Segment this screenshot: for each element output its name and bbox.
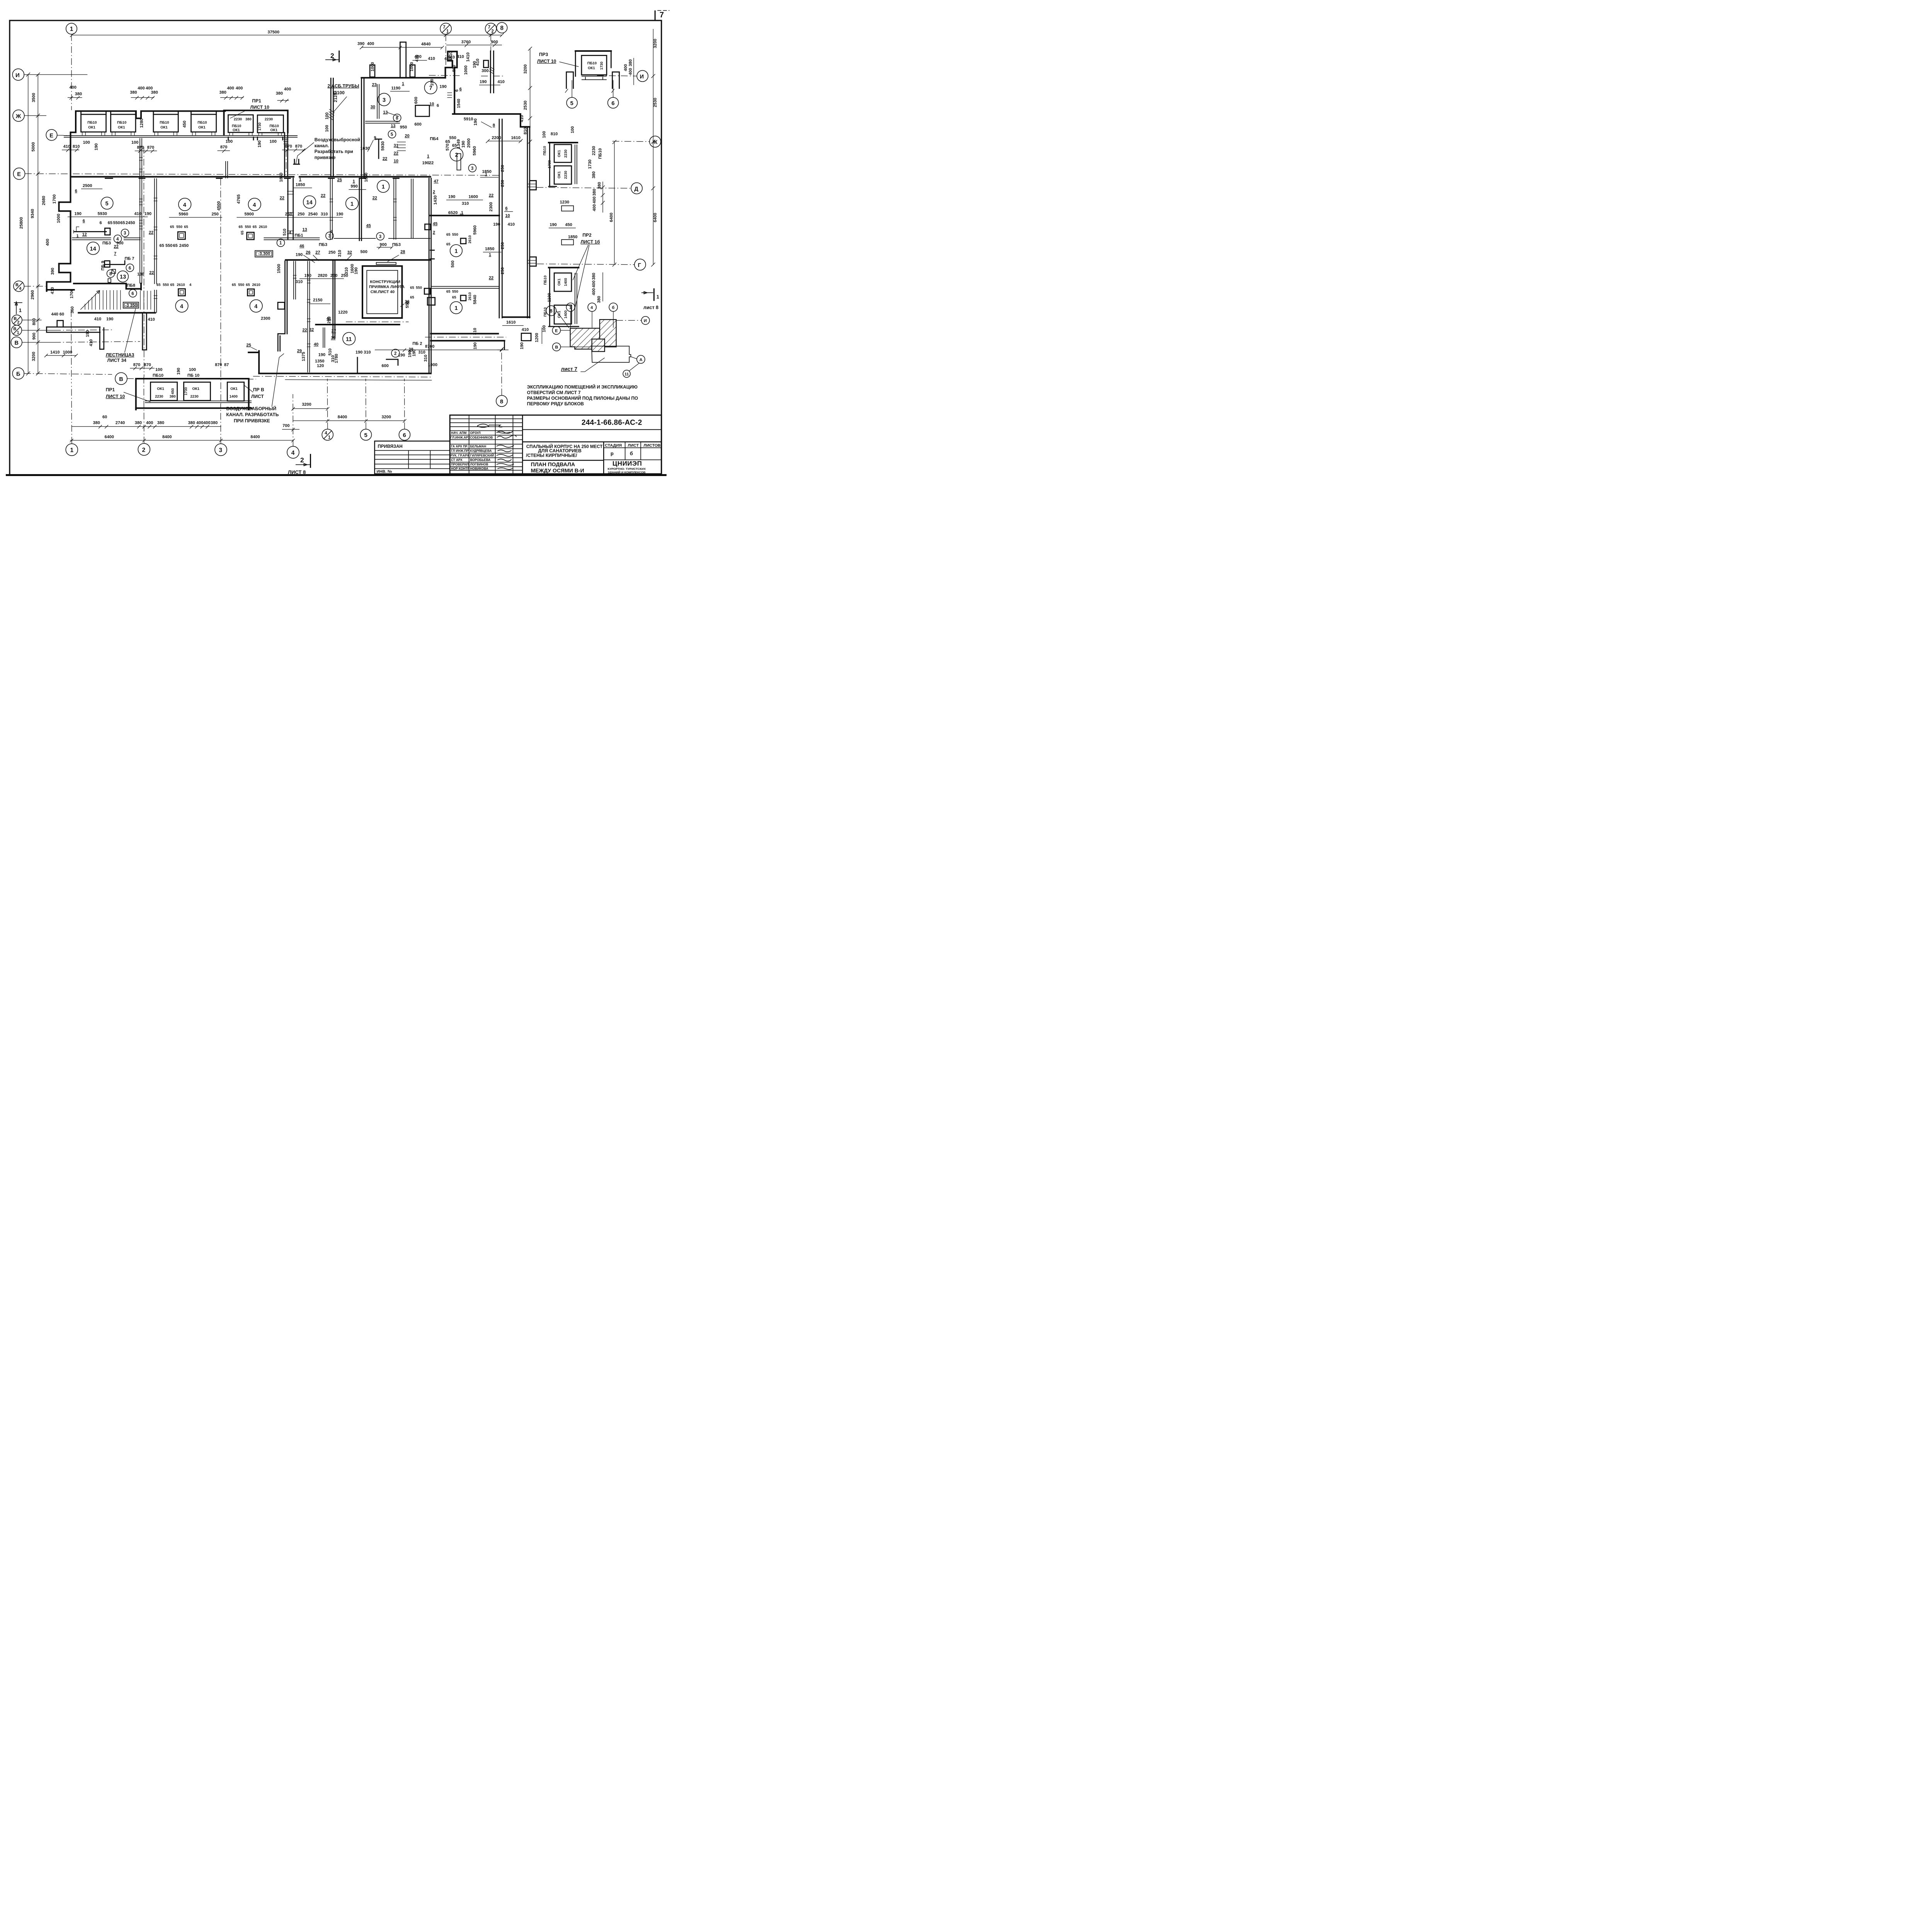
corridor walls right of x4455 bbox=[430, 211, 499, 304]
svg-text:ЦНИИЭП: ЦНИИЭП bbox=[612, 460, 642, 467]
svg-text:1280: 1280 bbox=[139, 119, 144, 128]
svg-text:300: 300 bbox=[481, 68, 488, 73]
svg-text:870: 870 bbox=[147, 145, 154, 150]
svg-text:190: 190 bbox=[422, 161, 429, 165]
key plan circle 1 bbox=[566, 303, 575, 328]
svg-text:1700: 1700 bbox=[70, 289, 74, 298]
svg-text:ГА АРХ ПР.: ГА АРХ ПР. bbox=[451, 445, 468, 448]
key plan axis circle Е bbox=[553, 327, 570, 335]
svg-text:2610: 2610 bbox=[468, 292, 472, 300]
svg-text:190: 190 bbox=[355, 350, 362, 355]
svg-text:380: 380 bbox=[245, 117, 252, 121]
svg-text:7: 7 bbox=[429, 85, 432, 92]
bay window box 1 bbox=[151, 382, 177, 401]
svg-text:100: 100 bbox=[270, 139, 277, 144]
svg-text:1730: 1730 bbox=[548, 160, 552, 168]
-3.300 level box bbox=[255, 251, 273, 257]
dim labels above north wall near axis 2 bbox=[130, 86, 158, 99]
svg-text:400: 400 bbox=[146, 421, 153, 425]
svg-text:2: 2 bbox=[142, 447, 146, 453]
svg-text:400: 400 bbox=[592, 288, 596, 295]
svg-text:1400: 1400 bbox=[230, 395, 238, 399]
svg-text:65: 65 bbox=[253, 225, 257, 229]
svg-text:1000: 1000 bbox=[63, 350, 72, 355]
small circle 6 a bbox=[126, 264, 134, 272]
svg-text:5960: 5960 bbox=[472, 146, 477, 155]
svg-text:13: 13 bbox=[383, 110, 388, 115]
svg-text:380: 380 bbox=[219, 90, 226, 95]
svg-text:ВОЗДУХОЗАБОРНЫЙ: ВОЗДУХОЗАБОРНЫЙ bbox=[226, 405, 277, 411]
svg-text:5930: 5930 bbox=[98, 211, 107, 216]
svg-text:12: 12 bbox=[82, 232, 87, 237]
svg-text:250: 250 bbox=[327, 316, 332, 323]
svg-text:3200: 3200 bbox=[382, 415, 391, 420]
svg-text:550: 550 bbox=[449, 136, 456, 140]
svg-text:550: 550 bbox=[113, 221, 120, 225]
svg-text:190: 190 bbox=[75, 211, 82, 216]
svg-text:1100: 1100 bbox=[547, 293, 552, 302]
svg-text:2000: 2000 bbox=[466, 138, 471, 148]
svg-text:5910: 5910 bbox=[464, 117, 473, 121]
left axis circle В/1 bbox=[12, 325, 54, 336]
svg-text:6400: 6400 bbox=[609, 213, 614, 222]
svg-text:2: 2 bbox=[300, 456, 304, 464]
axis 2 line through plan bbox=[143, 147, 145, 377]
svg-text:22: 22 bbox=[383, 156, 387, 161]
svg-text:2680: 2680 bbox=[41, 196, 46, 205]
svg-text:ПБ3: ПБ3 bbox=[392, 242, 401, 247]
svg-text:1850: 1850 bbox=[482, 170, 492, 174]
svg-text:.1: .1 bbox=[460, 211, 463, 215]
svg-text:870: 870 bbox=[133, 363, 140, 367]
svg-text:22: 22 bbox=[303, 328, 307, 333]
west exterior wall with notches bbox=[47, 178, 141, 291]
svg-text:450: 450 bbox=[565, 223, 572, 227]
axis circle 7/1 (top) bbox=[440, 23, 451, 77]
svg-text:2: 2 bbox=[433, 190, 435, 194]
svg-text:190: 190 bbox=[473, 119, 478, 126]
partition y2472 doors ПБ3 bbox=[237, 212, 430, 249]
east wall piers at Д and Г bbox=[527, 181, 536, 266]
И axis pier detail x5094 bbox=[457, 51, 505, 93]
svg-text:1000: 1000 bbox=[56, 214, 61, 223]
bottom axis circle 2 bbox=[138, 377, 150, 456]
svg-text:600: 600 bbox=[382, 364, 389, 368]
svg-text:ЛИСТ: ЛИСТ bbox=[628, 443, 639, 448]
svg-text:ПБ10: ПБ10 bbox=[197, 121, 207, 125]
svg-text:11: 11 bbox=[624, 372, 629, 376]
svg-text:ВОРОБЬЕВА: ВОРОБЬЕВА bbox=[470, 458, 491, 462]
svg-text:ПРИ ПРИВЯЗКЕ: ПРИ ПРИВЯЗКЕ bbox=[234, 418, 270, 423]
svg-text:Воздуховыбросной: Воздуховыбросной bbox=[315, 137, 360, 143]
svg-text:1410: 1410 bbox=[449, 51, 453, 61]
svg-text:5: 5 bbox=[391, 133, 393, 137]
small circle 3 bbox=[121, 229, 129, 237]
svg-text:ОК1: ОК1 bbox=[233, 128, 240, 133]
svg-text:3: 3 bbox=[124, 231, 126, 236]
east window column pier strip bbox=[549, 200, 577, 245]
И axis dash upper left of right wing bbox=[429, 75, 462, 77]
svg-text:400: 400 bbox=[624, 64, 628, 71]
svg-text:37500: 37500 bbox=[268, 30, 280, 34]
svg-text:2200: 2200 bbox=[492, 136, 501, 140]
left axis circle В bbox=[11, 337, 54, 348]
key plan axis circle В bbox=[553, 343, 592, 351]
room 1 circle mid bbox=[346, 197, 359, 210]
svg-text:6: 6 bbox=[131, 291, 134, 296]
svg-text:5930: 5930 bbox=[381, 141, 385, 151]
svg-text:1: 1 bbox=[569, 305, 571, 310]
svg-text:СТАДИЯ: СТАДИЯ bbox=[605, 443, 622, 448]
svg-text:13: 13 bbox=[303, 228, 307, 232]
svg-text:550: 550 bbox=[176, 225, 182, 229]
svg-text:6400: 6400 bbox=[105, 435, 114, 439]
svg-text:400: 400 bbox=[45, 239, 50, 246]
svg-text:ПРИВЯЗАН: ПРИВЯЗАН bbox=[378, 444, 403, 449]
leader ПР2 лист bottom bbox=[245, 386, 264, 400]
svg-text:600: 600 bbox=[415, 122, 422, 127]
window box ПБ10 ОК1 no.1 bbox=[81, 114, 106, 132]
svg-text:880: 880 bbox=[452, 65, 456, 72]
svg-text:65: 65 bbox=[232, 283, 236, 287]
svg-text:3500: 3500 bbox=[31, 93, 36, 102]
stub wall ПБ left bbox=[74, 227, 111, 235]
bottom axis circle 1 bbox=[66, 384, 78, 456]
svg-text:65: 65 bbox=[452, 143, 457, 148]
small hatch ticks on И pier bbox=[489, 67, 495, 74]
left axis circle В/2 bbox=[12, 315, 42, 325]
svg-text:65: 65 bbox=[410, 286, 414, 290]
svg-text:НОВИКОВА: НОВИКОВА bbox=[470, 467, 488, 471]
svg-text:23: 23 bbox=[372, 83, 377, 87]
corridor door stubs right block bbox=[430, 250, 434, 259]
pier block right bbox=[521, 333, 531, 341]
svg-text:ПБ 10: ПБ 10 bbox=[187, 373, 199, 378]
svg-text:1220: 1220 bbox=[338, 310, 347, 315]
svg-text:1: 1 bbox=[350, 201, 354, 207]
svg-text:2150: 2150 bbox=[313, 298, 322, 303]
bottom dim chain row1 bbox=[71, 415, 221, 429]
svg-text:190: 190 bbox=[448, 195, 455, 199]
svg-text:22: 22 bbox=[372, 196, 377, 201]
svg-text:2230: 2230 bbox=[234, 117, 242, 121]
svg-text:ЭКСПЛИКАЦИЮ ПОМЕЩЕНИЙ И: ЭКСПЛИКАЦИЮ ПОМЕЩЕНИЙ И ЭКСПЛИКАЦИЮ bbox=[527, 385, 638, 390]
svg-text:5840: 5840 bbox=[473, 295, 478, 304]
dim labels above north wall near axis 3 bbox=[219, 86, 291, 102]
svg-text:65: 65 bbox=[173, 243, 178, 248]
svg-text:3760: 3760 bbox=[461, 40, 471, 44]
wall x3730 bbox=[359, 179, 362, 241]
room 5 circle bbox=[101, 197, 113, 209]
svg-text:ОК1: ОК1 bbox=[88, 126, 95, 130]
svg-text:190: 190 bbox=[94, 143, 99, 150]
sill line under boxes 5-6 bbox=[219, 133, 298, 138]
svg-text:ЛЕСТНИЦА3: ЛЕСТНИЦА3 bbox=[106, 352, 134, 358]
svg-text:100: 100 bbox=[189, 367, 196, 372]
svg-text:310: 310 bbox=[462, 201, 469, 206]
partition x4257 room1 right bbox=[411, 179, 413, 239]
svg-text:6: 6 bbox=[505, 206, 508, 211]
svg-text:3200: 3200 bbox=[523, 65, 528, 74]
svg-text:ПБ10: ПБ10 bbox=[543, 146, 547, 155]
svg-text:190: 190 bbox=[177, 368, 181, 375]
svg-text:1000: 1000 bbox=[464, 65, 468, 75]
svg-text:10: 10 bbox=[394, 159, 398, 163]
svg-text:440: 440 bbox=[51, 312, 58, 316]
svg-text:250: 250 bbox=[500, 165, 505, 172]
svg-text:390: 390 bbox=[51, 268, 55, 275]
svg-text:3: 3 bbox=[379, 235, 381, 239]
svg-text:КУРОРТНО- ТУРИСТСКИХ: КУРОРТНО- ТУРИСТСКИХ bbox=[608, 467, 646, 471]
svg-text:ПБ1: ПБ1 bbox=[295, 233, 303, 238]
svg-text:1: 1 bbox=[17, 330, 19, 335]
svg-text:6400: 6400 bbox=[653, 213, 658, 222]
svg-text:65: 65 bbox=[446, 242, 451, 247]
ПР2 лист 16 leader bbox=[573, 233, 600, 310]
svg-text:ОК1: ОК1 bbox=[230, 387, 238, 391]
svg-text:4: 4 bbox=[180, 304, 183, 310]
svg-text:1610: 1610 bbox=[511, 136, 520, 140]
svg-text:100: 100 bbox=[83, 140, 90, 145]
svg-text:87: 87 bbox=[224, 363, 229, 367]
svg-text:2230: 2230 bbox=[190, 395, 199, 399]
svg-text:400: 400 bbox=[592, 204, 597, 211]
svg-text:4: 4 bbox=[254, 304, 257, 310]
texts room tags mid top bbox=[169, 173, 483, 268]
section mark 1 right with лист 8 bbox=[641, 288, 659, 310]
svg-text:5: 5 bbox=[105, 201, 109, 207]
svg-text:400: 400 bbox=[284, 87, 291, 92]
svg-text:190: 190 bbox=[145, 211, 151, 216]
svg-text:310: 310 bbox=[418, 350, 425, 355]
svg-text:1850: 1850 bbox=[296, 182, 305, 187]
svg-text:-3 350: -3 350 bbox=[125, 303, 137, 308]
svg-text:ПР2: ПР2 bbox=[583, 233, 592, 238]
svg-text:1410: 1410 bbox=[466, 53, 471, 62]
svg-text:190: 190 bbox=[480, 80, 486, 84]
svg-text:ПЕРВОМУ РЯДУ БЛОКОВ: ПЕРВОМУ РЯДУ БЛОКОВ bbox=[527, 401, 584, 406]
svg-text:3: 3 bbox=[219, 447, 223, 454]
svg-text:8700: 8700 bbox=[425, 344, 434, 349]
svg-text:4500: 4500 bbox=[217, 201, 221, 211]
room 13 circle bbox=[117, 271, 128, 282]
west wall upper extension bbox=[68, 133, 74, 178]
svg-text:ЛИСТ 10: ЛИСТ 10 bbox=[106, 394, 125, 399]
svg-text:ПБ8: ПБ8 bbox=[127, 283, 135, 288]
svg-text:65: 65 bbox=[446, 290, 451, 294]
svg-text:ПБ10: ПБ10 bbox=[587, 61, 597, 65]
svg-text:410: 410 bbox=[428, 56, 435, 61]
svg-text:30: 30 bbox=[371, 105, 375, 109]
воздуховыбросной канал text bbox=[294, 137, 360, 165]
right axis circle И bbox=[597, 70, 648, 82]
svg-text:1600: 1600 bbox=[469, 195, 478, 199]
svg-text:380: 380 bbox=[628, 59, 633, 66]
svg-text:канал.: канал. bbox=[315, 143, 329, 148]
svg-text:190: 190 bbox=[430, 79, 434, 86]
leader ПР1 лист 10 bottom bbox=[106, 387, 151, 402]
svg-text:5900: 5900 bbox=[245, 212, 254, 217]
svg-text:550: 550 bbox=[238, 283, 244, 287]
left axis circle Б bbox=[12, 368, 112, 379]
svg-text:ЛИСТ 34: ЛИСТ 34 bbox=[107, 357, 127, 363]
svg-text:1: 1 bbox=[402, 82, 404, 86]
square pier col in room4 d bbox=[278, 303, 285, 310]
svg-text:65: 65 bbox=[170, 225, 174, 229]
svg-text:380: 380 bbox=[130, 90, 137, 95]
svg-text:22: 22 bbox=[489, 193, 493, 198]
svg-text:410: 410 bbox=[522, 327, 529, 332]
svg-text:870: 870 bbox=[137, 145, 144, 150]
svg-text:410: 410 bbox=[508, 222, 515, 227]
svg-text:СТ АРХ: СТ АРХ bbox=[451, 458, 463, 462]
bottom axis circle 6 bbox=[399, 379, 410, 440]
svg-text:СМ.ЛИСТ 40: СМ.ЛИСТ 40 bbox=[371, 290, 395, 294]
svg-text:25800: 25800 bbox=[19, 217, 24, 229]
svg-text:б: б bbox=[612, 305, 615, 310]
svg-text:3: 3 bbox=[471, 166, 473, 171]
svg-text:31: 31 bbox=[394, 143, 398, 148]
svg-text:22: 22 bbox=[429, 161, 434, 165]
svg-text:2: 2 bbox=[455, 152, 458, 158]
svg-text:БЕЛЬМАН: БЕЛЬМАН bbox=[470, 445, 486, 448]
svg-text:ПБ3: ПБ3 bbox=[319, 242, 327, 247]
small circle 3 right wing bbox=[469, 164, 476, 172]
svg-text:КУДРЯВЦЕВА: КУДРЯВЦЕВА bbox=[470, 449, 492, 453]
svg-text:37: 37 bbox=[332, 329, 336, 333]
svg-text:29: 29 bbox=[297, 349, 302, 353]
svg-text:400: 400 bbox=[592, 281, 596, 287]
svg-text:400: 400 bbox=[628, 68, 633, 75]
svg-text:47: 47 bbox=[434, 179, 439, 184]
svg-text:1730: 1730 bbox=[588, 160, 592, 169]
svg-text:4: 4 bbox=[325, 431, 327, 436]
svg-text:1000: 1000 bbox=[371, 62, 375, 71]
svg-text:КОНСТРУКЦИИ: КОНСТРУКЦИИ bbox=[370, 280, 400, 284]
svg-text:7: 7 bbox=[443, 25, 445, 30]
svg-text:1730: 1730 bbox=[600, 61, 604, 70]
svg-text:1230: 1230 bbox=[560, 200, 569, 204]
svg-text:4: 4 bbox=[19, 286, 22, 291]
svg-text:Е: Е bbox=[555, 328, 558, 333]
bottom axis circle 4/1 bbox=[322, 379, 333, 440]
window box ПБ10 ОК1 no.5 bbox=[228, 115, 253, 133]
svg-text:ПБ10: ПБ10 bbox=[232, 124, 241, 128]
svg-text:ОК1: ОК1 bbox=[557, 171, 561, 179]
svg-text:Е: Е bbox=[49, 133, 53, 139]
right axis circle Д bbox=[537, 183, 643, 194]
svg-text:410: 410 bbox=[520, 115, 524, 122]
svg-text:9340: 9340 bbox=[30, 209, 35, 218]
svg-text:22: 22 bbox=[280, 196, 284, 201]
svg-text:А: А bbox=[639, 357, 643, 362]
left axis circle Е bbox=[14, 168, 500, 180]
svg-text:1: 1 bbox=[427, 154, 429, 159]
svg-text:ПРИЯМКА ЛИФТА: ПРИЯМКА ЛИФТА bbox=[369, 285, 405, 289]
svg-text:250: 250 bbox=[298, 212, 304, 217]
svg-text:ЛОГВИНОВ: ЛОГВИНОВ bbox=[470, 463, 488, 466]
svg-text:4: 4 bbox=[253, 202, 256, 208]
svg-text:100: 100 bbox=[155, 367, 162, 372]
svg-text:65: 65 bbox=[160, 243, 164, 248]
svg-text:ПБ10: ПБ10 bbox=[543, 276, 548, 285]
svg-text:3200: 3200 bbox=[302, 402, 311, 407]
svg-text:ПРОВЕРИЛ: ПРОВЕРИЛ bbox=[451, 463, 469, 466]
svg-text:100: 100 bbox=[542, 325, 546, 332]
svg-text:ПБ10: ПБ10 bbox=[117, 121, 126, 125]
svg-text:3200: 3200 bbox=[31, 352, 36, 361]
svg-text:1: 1 bbox=[70, 447, 74, 454]
room 4 circle c bbox=[175, 300, 188, 313]
svg-text:550: 550 bbox=[452, 290, 458, 294]
axis 1 line lower bbox=[70, 310, 73, 383]
svg-text:ОТВЕРСТИЙ СМ ЛИСТ 7: ОТВЕРСТИЙ СМ ЛИСТ 7 bbox=[527, 390, 581, 395]
svg-text:65: 65 bbox=[410, 296, 414, 300]
svg-text:б: б bbox=[630, 451, 633, 456]
room 4 circle d bbox=[250, 300, 263, 313]
axis circle 7/2 (top) bbox=[485, 23, 497, 51]
room 11 circle bbox=[343, 332, 355, 345]
svg-text:привязке: привязке bbox=[315, 155, 336, 160]
svg-text:лист 8: лист 8 bbox=[643, 305, 658, 310]
svg-text:Д: Д bbox=[634, 186, 639, 192]
svg-text:3: 3 bbox=[383, 97, 386, 103]
svg-text:500: 500 bbox=[361, 250, 367, 254]
svg-text:310: 310 bbox=[473, 328, 477, 335]
svg-text:13: 13 bbox=[391, 124, 395, 128]
svg-text:410: 410 bbox=[457, 54, 464, 59]
svg-text:2610: 2610 bbox=[468, 235, 472, 243]
svg-text:И: И bbox=[15, 72, 20, 78]
bottom axis circle 4 bbox=[287, 394, 299, 458]
svg-text:ОК1: ОК1 bbox=[192, 387, 200, 391]
svg-text:100: 100 bbox=[131, 140, 138, 145]
svg-text:450: 450 bbox=[171, 388, 175, 395]
svg-text:4840: 4840 bbox=[421, 42, 430, 47]
svg-text:ПБ10: ПБ10 bbox=[598, 148, 602, 159]
right wing south double wall strip bbox=[425, 327, 542, 351]
svg-text:380: 380 bbox=[276, 91, 283, 96]
mid bottom dims 3200/8400 bbox=[282, 344, 503, 431]
bottom axis circle 8 right bbox=[496, 350, 507, 406]
svg-text:1: 1 bbox=[656, 294, 659, 300]
svg-text:22: 22 bbox=[489, 276, 493, 281]
window box ПБ10 ОК1 no.4 bbox=[191, 114, 216, 132]
svg-text:КАНАЛ. РАЗРАБОТАТЬ: КАНАЛ. РАЗРАБОТАТЬ bbox=[226, 412, 279, 417]
room 11 block partitions bbox=[261, 261, 437, 372]
svg-text:380: 380 bbox=[170, 395, 176, 399]
svg-text:МЕЖДУ ОСЯМИ В-И: МЕЖДУ ОСЯМИ В-И bbox=[531, 468, 584, 474]
svg-text:810: 810 bbox=[523, 128, 528, 134]
svg-text:4: 4 bbox=[330, 230, 333, 234]
svg-text:600: 600 bbox=[414, 97, 418, 104]
svg-text:ЛИСТ 10: ЛИСТ 10 bbox=[537, 59, 556, 64]
svg-text:810: 810 bbox=[551, 132, 558, 136]
svg-text:380: 380 bbox=[597, 182, 602, 189]
pier squares with dims bbox=[156, 224, 472, 301]
svg-text:4: 4 bbox=[183, 202, 186, 208]
svg-text:65: 65 bbox=[108, 221, 112, 225]
svg-text:ПБ10: ПБ10 bbox=[160, 121, 169, 125]
partition x3430 bbox=[330, 179, 333, 240]
svg-text:550: 550 bbox=[245, 225, 251, 229]
room 1 circle corridor bbox=[377, 180, 389, 193]
svg-text:32: 32 bbox=[309, 327, 314, 332]
svg-text:8: 8 bbox=[109, 272, 112, 276]
right wing west wall bbox=[362, 78, 364, 178]
svg-text:60: 60 bbox=[102, 415, 107, 420]
svg-text:550: 550 bbox=[416, 286, 422, 290]
